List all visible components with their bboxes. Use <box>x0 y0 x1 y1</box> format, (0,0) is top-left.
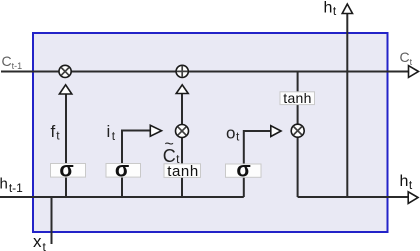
wire: x_t input vertical <box>51 197 53 244</box>
gate box: tanh (cell output squash) <box>280 92 315 105</box>
op: multiply circle on C line (forget) <box>59 65 71 77</box>
op: multiply circle (input x candidate) <box>176 125 189 138</box>
gate box: sigma 1 (forget) <box>51 164 86 178</box>
gate box: sigma 2 (input) <box>106 164 141 178</box>
wire: candidate path vertical (C tilde) <box>181 93 183 197</box>
arrowhead: h_t output right <box>408 192 418 204</box>
svg-text:σ: σ <box>115 158 129 181</box>
wire: tanh branch from C line down to output multiply and down to h line <box>297 72 299 198</box>
op: multiply circle (output gate x tanh) <box>291 124 304 137</box>
svg-text:σ: σ <box>236 158 250 181</box>
LSTM cell body box <box>33 33 388 232</box>
arrowhead: candidate into plus <box>176 85 188 94</box>
wire: h_{t-1} bottom horizontal line <box>0 196 244 198</box>
gate box: sigma 3 (output) <box>226 164 262 177</box>
svg-text:~: ~ <box>165 136 174 153</box>
op: plus circle on C line (add candidate) <box>176 65 188 77</box>
arrowhead: C_t output <box>409 66 419 78</box>
arrowhead: h_t output top <box>342 4 352 14</box>
svg-text:tanh: tanh <box>283 90 311 106</box>
arrowhead: i into multiply <box>150 125 161 136</box>
wire: h_t bottom output horizontal <box>298 196 409 198</box>
gate box: tanh (candidate) <box>164 164 201 178</box>
wire: cell state line C (top horizontal) <box>1 71 409 73</box>
wire: h_t branch going up and out the top <box>346 13 348 197</box>
arrowhead: o into multiply <box>271 126 281 137</box>
wire: input gate vertical + horizontal (i) <box>122 131 151 198</box>
svg-text:σ: σ <box>59 158 73 181</box>
wire: output gate vertical + horizontal (o) <box>244 131 271 197</box>
arrowhead: f into multiply <box>59 85 71 94</box>
wire: forget gate vertical (f) <box>65 93 67 197</box>
